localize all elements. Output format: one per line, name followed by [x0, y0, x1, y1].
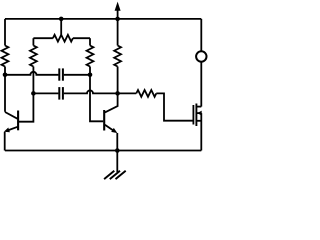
resistor R3 inner-left	[30, 46, 37, 67]
node dot wire1 right	[88, 73, 93, 78]
ground	[104, 151, 126, 180]
wire source down to rail	[200, 113, 202, 150]
node dot wire1 left	[3, 73, 8, 78]
wire inner-right column top	[89, 38, 91, 45]
resistor R2 horizontal tapped	[53, 35, 73, 42]
power supply arrow	[115, 2, 121, 19]
wire left column top	[4, 19, 6, 46]
node dot wire2 right	[115, 91, 120, 96]
wire bottom rail	[5, 150, 201, 152]
potentiometer tap wire	[60, 19, 62, 35]
wire 1 with hop over inner-left column	[5, 72, 58, 75]
resistor R6 gate	[136, 90, 156, 97]
transistor Q1 collector lead	[5, 112, 18, 119]
wire drain up to lamp	[200, 62, 202, 106]
transistor Q1 base wire from node	[19, 93, 33, 121]
capacitor C2	[59, 87, 63, 100]
capacitor C1	[59, 68, 63, 80]
wire inner-right column to wire1	[89, 67, 91, 75]
node dot ground	[115, 148, 120, 153]
wire Q2 emitter down	[116, 133, 118, 151]
wire 1 right part	[64, 74, 90, 76]
wire inner-left column down to wire2	[32, 67, 34, 94]
resistor R4 inner-right	[87, 46, 94, 67]
wire Q1 emitter down	[4, 132, 6, 151]
wire 2 left part	[33, 92, 58, 94]
wire middle column to wire2	[117, 67, 119, 94]
transistor Q2 collector lead	[105, 93, 118, 112]
transistor Q2 emitter with arrow	[105, 125, 118, 133]
resistor R5 middle	[114, 46, 121, 67]
node dot rail supply	[115, 17, 120, 22]
tapped resistor network top wires	[33, 37, 53, 39]
wire left column middle	[4, 67, 6, 112]
MOSFET M1 drain stub	[196, 106, 201, 108]
MOSFET M1 gate bar	[192, 105, 194, 125]
MOSFET M1 body stub with arrow	[196, 111, 201, 116]
wire V+ top rail	[5, 18, 201, 20]
lamp circle	[196, 51, 206, 61]
MOSFET M1 source stub	[196, 120, 201, 122]
node dot wire2 left	[31, 91, 36, 96]
wire middle column top	[117, 19, 119, 46]
wire inner-left column top	[32, 38, 34, 45]
wire gate lead	[156, 93, 193, 120]
wire gate node to resistor	[118, 92, 137, 94]
transistor Q1 emitter with arrow	[4, 127, 18, 133]
wire lamp to rail	[200, 19, 202, 51]
resistor R1 left	[2, 46, 9, 67]
transistor Q2 base bar	[103, 110, 105, 131]
wire 2 with hop over inner-right column	[64, 90, 118, 93]
wire Q2 base lead	[90, 75, 103, 122]
MOSFET M1 channel bar	[195, 104, 197, 127]
transistor Q1 base bar	[17, 111, 19, 131]
node dot rail tap	[59, 17, 64, 22]
